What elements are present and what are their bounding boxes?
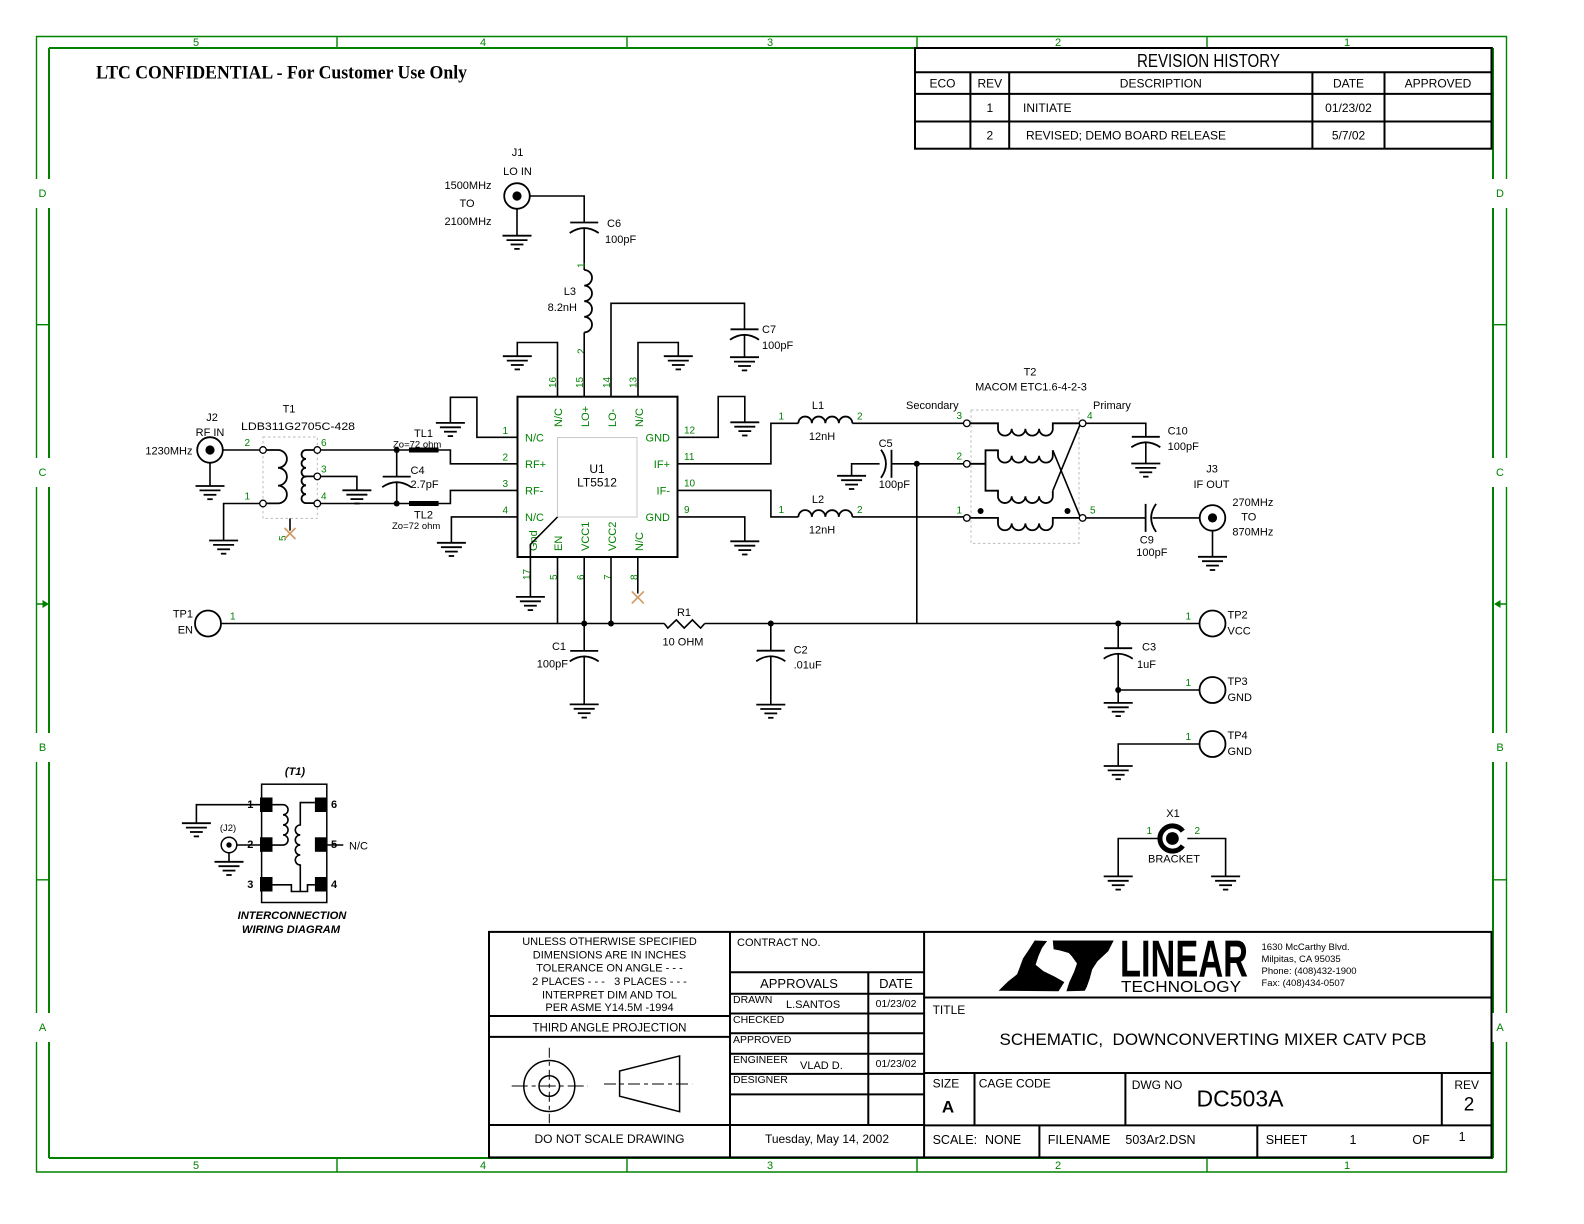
LINEAR TECHNOLOGY logo text (1120, 930, 1248, 996)
U1 Gnd pin17 diagonal and wire to ground (530, 517, 557, 597)
third angle projection symbol (512, 1048, 693, 1124)
title block (489, 930, 1492, 1157)
ground C1 (570, 704, 599, 717)
svg-text:IF OUT: IF OUT (1193, 479, 1229, 491)
svg-text:870MHz: 870MHz (1232, 527, 1273, 539)
wire J2 to ground (209, 463, 211, 486)
svg-text:L3: L3 (564, 286, 576, 298)
svg-text:BRACKET: BRACKET (1148, 854, 1200, 866)
svg-text:RF IN: RF IN (196, 427, 225, 439)
svg-text:REV: REV (1454, 1078, 1479, 1092)
svg-text:TP4: TP4 (1228, 730, 1248, 742)
svg-text:B: B (1496, 742, 1503, 754)
svg-text:SCALE:: SCALE: (933, 1133, 977, 1147)
wire TP3 node to ground (1117, 690, 1119, 703)
ground U1 pin4 (437, 543, 466, 556)
wire TL2 to U1 pin3 (439, 490, 518, 503)
svg-text:503Ar2.DSN: 503Ar2.DSN (1125, 1133, 1195, 1147)
TL2 label (392, 510, 440, 533)
capacitor C1 (570, 624, 599, 705)
svg-text:C5: C5 (879, 438, 893, 450)
inductor L2 (798, 510, 852, 517)
wire C5 to T2 pin2 (892, 463, 964, 465)
svg-text:INITIATE: INITIATE (1023, 101, 1071, 115)
L1 pin numbers (778, 412, 863, 423)
capacitor C2 (756, 624, 785, 705)
wire L2 to T2 pin1 (852, 516, 964, 518)
svg-text:2: 2 (857, 412, 863, 423)
wire U1 pin16 to ground (517, 343, 557, 397)
svg-text:2: 2 (857, 505, 863, 516)
X1 pin numbers (1146, 826, 1200, 837)
junction node TL1-C4 (394, 447, 400, 453)
svg-text:ECO: ECO (929, 77, 955, 91)
svg-text:1uF: 1uF (1137, 659, 1156, 671)
svg-text:2100MHz: 2100MHz (444, 216, 491, 228)
svg-text:DIMENSIONS ARE IN INCHES: DIMENSIONS ARE IN INCHES (533, 950, 686, 962)
L2 pin numbers (778, 505, 863, 516)
svg-text:7: 7 (603, 574, 614, 580)
transformer T1 (241, 404, 355, 519)
connector J2 (196, 412, 225, 463)
svg-text:4: 4 (502, 506, 508, 517)
L1 label (809, 400, 835, 443)
U1 pin numbers right (684, 425, 696, 516)
capacitor C4 (382, 450, 411, 504)
svg-text:(T1): (T1) (285, 766, 306, 778)
svg-text:Tuesday, May 14, 2002: Tuesday, May 14, 2002 (765, 1132, 889, 1146)
svg-text:8: 8 (630, 574, 641, 580)
svg-text:1630 McCarthy Blvd.: 1630 McCarthy Blvd. (1262, 942, 1350, 953)
svg-text:5: 5 (193, 1160, 199, 1172)
T1 pin numbers (244, 438, 327, 503)
svg-text:3: 3 (502, 479, 508, 490)
svg-text:CONTRACT NO.: CONTRACT NO. (737, 937, 821, 949)
svg-text:4: 4 (331, 879, 338, 891)
svg-text:B: B (39, 742, 46, 754)
svg-text:12nH: 12nH (809, 431, 835, 443)
svg-text:4: 4 (321, 492, 327, 503)
inductor L1 (798, 417, 852, 424)
ground C2 (756, 705, 785, 718)
svg-text:01/23/02: 01/23/02 (876, 998, 917, 1010)
svg-text:1: 1 (956, 506, 962, 517)
ground TP3 (1104, 703, 1133, 716)
svg-text:REV: REV (977, 77, 1002, 91)
svg-text:LTC CONFIDENTIAL - For Custome: LTC CONFIDENTIAL - For Customer Use Only (96, 63, 467, 84)
svg-text:6: 6 (576, 574, 587, 580)
T1 pin5 stub (289, 518, 291, 530)
svg-text:TP2: TP2 (1228, 610, 1248, 622)
svg-text:TP1: TP1 (173, 609, 193, 621)
wire J2 to T1 pin2 (223, 449, 260, 451)
svg-text:DATE: DATE (1333, 77, 1364, 91)
svg-text:2: 2 (1055, 1160, 1061, 1172)
svg-text:2: 2 (244, 438, 250, 449)
svg-text:TITLE: TITLE (933, 1003, 966, 1017)
wiring diagram ground pin1 (196, 805, 272, 823)
svg-text:VCC2: VCC2 (607, 522, 619, 551)
svg-text:DATE: DATE (879, 976, 913, 991)
ground J1 (503, 236, 532, 249)
wire U1 pin11 to L1 (678, 423, 799, 464)
svg-text:N/C: N/C (349, 841, 368, 853)
tolerance notes (522, 936, 697, 1146)
svg-text:SCHEMATIC, DOWNCONVERTING MIX: SCHEMATIC, DOWNCONVERTING MIXER CATV PCB (1000, 1030, 1427, 1049)
svg-text:LO+: LO+ (580, 406, 592, 427)
U1 pin numbers left (502, 426, 508, 517)
svg-text:EN: EN (178, 625, 193, 637)
zone labels left (39, 188, 47, 1034)
wire TL1 to U1 pin2 (439, 450, 518, 464)
resistor R1 (664, 620, 704, 628)
no-connect X pin8 (632, 591, 644, 603)
svg-text:SIZE: SIZE (933, 1077, 960, 1091)
svg-text:3: 3 (767, 37, 773, 49)
C10 value label (1168, 426, 1199, 454)
svg-text:DESCRIPTION: DESCRIPTION (1120, 77, 1202, 91)
interconnection wiring diagram T1 (260, 766, 327, 903)
svg-text:6: 6 (331, 799, 337, 811)
svg-text:2: 2 (986, 129, 993, 143)
connector J1 (503, 147, 532, 209)
svg-text:16: 16 (548, 376, 559, 388)
svg-text:17: 17 (522, 568, 533, 580)
wire T2 pin4 to C10 (1086, 423, 1146, 437)
svg-text:Zo=72 ohm: Zo=72 ohm (393, 440, 441, 451)
svg-text:REVISION HISTORY: REVISION HISTORY (1137, 51, 1280, 71)
wire C9 to J3 (1153, 517, 1200, 519)
centering arrow left (36, 600, 49, 608)
svg-text:LO IN: LO IN (503, 166, 532, 178)
svg-text:C4: C4 (411, 465, 425, 477)
svg-text:A: A (942, 1098, 954, 1117)
svg-text:.01uF: .01uF (794, 660, 822, 672)
wire U1 pin13 to ground (638, 343, 678, 397)
svg-text:8.2nH: 8.2nH (548, 302, 577, 314)
ground U1 pin1 (436, 423, 465, 436)
svg-text:01/23/02: 01/23/02 (1325, 101, 1372, 115)
svg-text:100pF: 100pF (1168, 441, 1199, 453)
svg-text:IF-: IF- (657, 486, 671, 498)
svg-text:1: 1 (502, 426, 508, 437)
ground T1 pin1 (209, 541, 238, 554)
test point TP2 (1200, 610, 1251, 638)
capacitor C9 (1146, 504, 1157, 532)
svg-text:EN: EN (553, 536, 565, 551)
ground J3 (1198, 557, 1227, 570)
wire U1 pin6 VCC1 (583, 557, 585, 624)
ground C7 (730, 357, 759, 370)
C7 value label (762, 324, 793, 352)
svg-text:1: 1 (1344, 1160, 1350, 1172)
test point TP3 (1200, 676, 1253, 704)
wire C7 to ground (744, 335, 746, 357)
svg-text:J3: J3 (1206, 464, 1218, 476)
svg-text:4: 4 (480, 1160, 486, 1172)
junction VCC2 (608, 621, 614, 627)
VCC rail wire right (705, 623, 1200, 625)
svg-text:6: 6 (321, 438, 327, 449)
svg-text:APPROVALS: APPROVALS (760, 976, 838, 991)
T2 pin numbers (956, 411, 1096, 517)
wiring diagram ground J2 (215, 853, 244, 875)
wire U1 pin4 to ground (451, 517, 517, 543)
svg-text:A: A (1496, 1022, 1504, 1034)
svg-text:1: 1 (577, 262, 588, 268)
wire T1 pin1 to ground (224, 504, 260, 541)
svg-text:C1: C1 (552, 641, 566, 653)
svg-text:1: 1 (1459, 1130, 1466, 1144)
svg-text:CHECKED: CHECKED (733, 1014, 785, 1026)
wire U1 pin14 to C7 (611, 303, 745, 396)
svg-text:11: 11 (684, 452, 695, 463)
LT logo mark (999, 941, 1114, 992)
ground pin16 (503, 356, 532, 369)
svg-text:N/C: N/C (634, 408, 646, 427)
svg-text:2: 2 (577, 348, 588, 354)
svg-text:RF+: RF+ (525, 459, 546, 471)
junction C3 (1115, 621, 1121, 627)
svg-text:J2: J2 (206, 412, 218, 424)
U1 pin names top (553, 406, 646, 427)
scale filename sheet (933, 1130, 1466, 1147)
svg-text:1500MHz: 1500MHz (444, 180, 491, 192)
junction node VCC feed (914, 461, 920, 467)
svg-text:N/C: N/C (553, 408, 565, 427)
svg-text:DRAWN: DRAWN (733, 994, 772, 1006)
capacitor C10 (1131, 437, 1160, 448)
zone labels top (193, 37, 1350, 49)
svg-text:1: 1 (1186, 612, 1192, 623)
wire U1 pin9 to ground (678, 517, 745, 541)
wire T1 pin4 to TL2 (321, 503, 409, 505)
approvals block text (733, 937, 917, 1146)
capacitor C5 (881, 450, 892, 478)
centering arrow right (1494, 600, 1507, 608)
test point TP1 (173, 609, 221, 637)
ground X1 pin2 (1211, 876, 1240, 889)
junction node TL2-C4 (394, 501, 400, 507)
C6 value label (605, 218, 636, 246)
wiring diagram secondary winding (295, 803, 315, 892)
svg-text:L.SANTOS: L.SANTOS (786, 999, 840, 1011)
svg-text:OF: OF (1412, 1133, 1430, 1147)
svg-text:Milpitas, CA 95035: Milpitas, CA 95035 (1262, 954, 1341, 965)
transmission line TL2 (409, 501, 439, 506)
C4 value label (411, 465, 439, 491)
wire J3 to ground (1212, 531, 1214, 557)
wire J1 to ground (516, 209, 518, 236)
svg-text:WIRING DIAGRAM: WIRING DIAGRAM (242, 924, 341, 936)
svg-text:INTERPRET DIM AND TOL: INTERPRET DIM AND TOL (542, 990, 677, 1002)
U1 pin numbers bottom (522, 568, 641, 580)
svg-text:SHEET: SHEET (1266, 1133, 1308, 1147)
revision history table (915, 48, 1492, 149)
no-connect X T1 pin5 (285, 528, 296, 539)
C9 value label (1136, 535, 1167, 560)
svg-text:L2: L2 (812, 494, 824, 506)
svg-text:VLAD D.: VLAD D. (800, 1060, 843, 1072)
svg-text:TO: TO (459, 198, 475, 210)
svg-text:THIRD ANGLE PROJECTION: THIRD ANGLE PROJECTION (533, 1023, 687, 1035)
svg-text:100pF: 100pF (1136, 547, 1167, 559)
svg-text:1: 1 (778, 505, 784, 516)
svg-text:FILENAME: FILENAME (1048, 1133, 1111, 1147)
svg-text:100pF: 100pF (879, 479, 910, 491)
svg-text:2: 2 (956, 452, 962, 463)
svg-text:R1: R1 (677, 607, 691, 619)
svg-text:1: 1 (986, 101, 993, 115)
ground C10 (1131, 464, 1160, 477)
svg-text:TO: TO (1241, 512, 1257, 524)
svg-text:14: 14 (602, 376, 613, 388)
junction VCC1 (581, 621, 587, 627)
svg-text:INTERCONNECTION: INTERCONNECTION (238, 910, 348, 922)
svg-text:3: 3 (321, 464, 327, 475)
svg-text:C9: C9 (1140, 535, 1154, 547)
svg-text:2: 2 (502, 453, 508, 464)
U1 pin8 stub (637, 557, 639, 594)
U1 pin names right (646, 433, 671, 525)
svg-text:Fax: (408)434-0507: Fax: (408)434-0507 (1262, 978, 1345, 989)
wire U1 pin1 to ground (450, 397, 517, 437)
svg-text:12nH: 12nH (809, 525, 835, 537)
svg-text:Secondary: Secondary (906, 400, 959, 412)
L2 label (809, 494, 835, 537)
svg-text:A: A (39, 1022, 47, 1034)
svg-text:C7: C7 (762, 324, 776, 336)
transformer T2 (964, 367, 1087, 544)
svg-text:X1: X1 (1166, 808, 1179, 820)
wire C6 to L3 (583, 229, 585, 271)
svg-text:GND: GND (1228, 692, 1253, 704)
svg-text:MACOM ETC1.6-4-2-3: MACOM ETC1.6-4-2-3 (975, 382, 1087, 394)
svg-text:C3: C3 (1142, 642, 1156, 654)
svg-text:3: 3 (956, 411, 962, 422)
wire T2 pin5 to C9 (1086, 517, 1146, 519)
wire L3 to U1 pin15 (583, 332, 585, 396)
zone labels right (1496, 188, 1504, 1034)
svg-text:PER ASME Y14.5M -1994: PER ASME Y14.5M -1994 (545, 1002, 673, 1014)
svg-text:TOLERANCE ON ANGLE - - -: TOLERANCE ON ANGLE - - - (536, 963, 683, 975)
wiring diagram caption (238, 910, 348, 936)
svg-text:J1: J1 (512, 147, 524, 159)
svg-text:DO NOT SCALE DRAWING: DO NOT SCALE DRAWING (534, 1132, 684, 1146)
svg-text:LT5512: LT5512 (577, 476, 617, 490)
wire VCC feed down (916, 464, 918, 624)
svg-text:T1: T1 (283, 404, 296, 416)
TL1 label (393, 428, 441, 451)
ground U1 pin9 (730, 541, 759, 554)
svg-text:GND: GND (1228, 746, 1253, 758)
test point TP4 (1200, 730, 1253, 758)
svg-text:DWG NO: DWG NO (1132, 1078, 1183, 1092)
svg-text:L1: L1 (812, 400, 824, 412)
ground TP4 (1104, 766, 1133, 779)
svg-text:5: 5 (193, 37, 199, 49)
U1 pin names bottom (528, 522, 646, 551)
svg-text:C2: C2 (794, 645, 808, 657)
wiring diagram N/C pin5 (327, 841, 368, 853)
svg-text:1: 1 (778, 412, 784, 423)
svg-text:5: 5 (549, 574, 560, 580)
svg-text:D: D (1496, 188, 1504, 200)
svg-text:3: 3 (247, 879, 253, 891)
svg-text:2: 2 (1464, 1095, 1475, 1116)
zone labels bottom (193, 1160, 1350, 1172)
svg-text:VCC: VCC (1228, 626, 1251, 638)
J3 frequency label (1232, 497, 1273, 539)
svg-text:Phone: (408)432-1900: Phone: (408)432-1900 (1262, 966, 1357, 977)
svg-text:1: 1 (230, 612, 236, 623)
svg-text:APPROVED: APPROVED (733, 1034, 792, 1046)
transmission line TL1 (409, 448, 439, 453)
svg-text:D: D (39, 188, 47, 200)
inductor L3 (584, 270, 592, 332)
junction TP3 node (1115, 687, 1121, 693)
C3 value label (1137, 642, 1156, 672)
wire U1 pin7 VCC2 (610, 557, 612, 624)
ground C5 (837, 476, 866, 489)
svg-text:9: 9 (684, 505, 690, 516)
svg-text:100pF: 100pF (762, 340, 793, 352)
svg-text:TL1: TL1 (414, 428, 433, 440)
svg-text:5/7/02: 5/7/02 (1332, 129, 1366, 143)
svg-text:REVISED; DEMO BOARD RELEASE: REVISED; DEMO BOARD RELEASE (1026, 129, 1226, 143)
U1 pin numbers top (548, 376, 640, 388)
svg-text:4: 4 (480, 37, 486, 49)
ground T1 pin3 (342, 490, 371, 503)
svg-text:1: 1 (244, 492, 250, 503)
svg-text:100pF: 100pF (605, 234, 636, 246)
wiring diagram primary winding (273, 805, 289, 845)
wire U1 pin10 to L2 (678, 490, 799, 517)
ground pin13 (664, 356, 693, 369)
svg-text:T2: T2 (1024, 367, 1037, 379)
title text (933, 1003, 1427, 1049)
connector J3 (1193, 464, 1229, 531)
C1 value label (537, 641, 568, 671)
svg-text:LO-: LO- (607, 408, 619, 427)
svg-text:RF-: RF- (525, 486, 544, 498)
svg-text:12: 12 (684, 425, 696, 436)
capacitor C6 (570, 223, 599, 234)
svg-text:1230MHz: 1230MHz (145, 446, 192, 458)
R1 value label (663, 607, 704, 649)
capacitor C7 (730, 329, 759, 340)
svg-text:10 OHM: 10 OHM (663, 637, 704, 649)
size cage dwg rev (933, 1077, 1479, 1117)
svg-text:15: 15 (575, 376, 586, 388)
svg-text:1: 1 (1186, 678, 1192, 689)
capacitor C3 (1104, 624, 1133, 691)
wire T1 pin6 to TL1 (321, 449, 409, 451)
L3 value label (548, 286, 577, 314)
svg-text:GND: GND (646, 433, 671, 445)
svg-text:IF+: IF+ (654, 459, 670, 471)
svg-text:01/23/02: 01/23/02 (876, 1058, 917, 1070)
C5 value label (879, 438, 911, 491)
svg-text:GND: GND (646, 512, 671, 524)
svg-text:U1: U1 (589, 462, 605, 476)
svg-text:10: 10 (684, 478, 696, 489)
wire ground to C5 (852, 464, 880, 476)
U1 pin names left (525, 433, 546, 525)
wiring diagram pad numbers (247, 799, 338, 891)
wire X1 pin2 to ground (1187, 839, 1225, 877)
svg-text:2.7pF: 2.7pF (411, 479, 439, 491)
